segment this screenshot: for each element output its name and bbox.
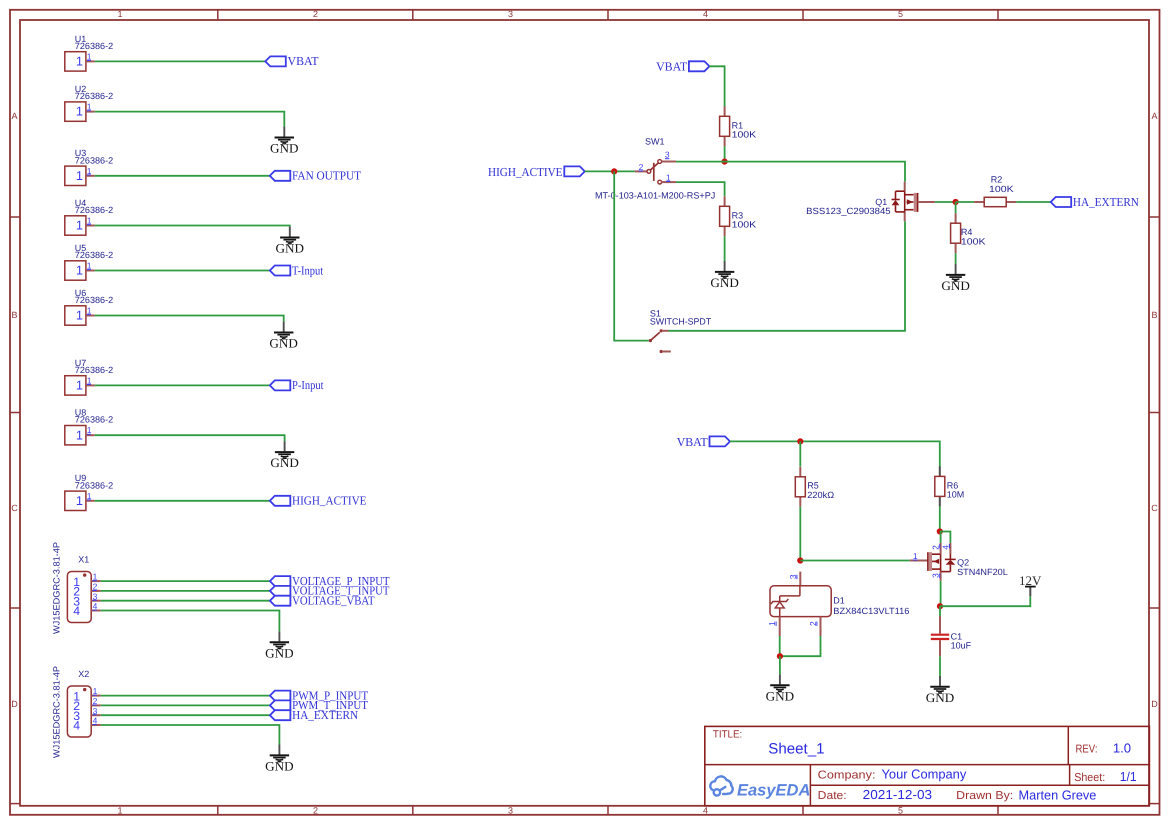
power port 12V (1019, 573, 1042, 596)
wire (940, 596, 1030, 606)
wire (939, 606, 941, 616)
svg-text:726386-2: 726386-2 (75, 250, 113, 260)
body (65, 52, 86, 71)
svg-text:100K: 100K (732, 130, 757, 140)
svg-text:1: 1 (76, 427, 83, 442)
node junction (953, 199, 959, 205)
internal wiring (799, 586, 801, 596)
net flag VOLTAGE_VBAT (270, 594, 375, 608)
svg-text:1: 1 (87, 216, 92, 226)
ground (926, 676, 955, 705)
svg-text:X2: X2 (78, 669, 89, 679)
svg-text:GND: GND (269, 337, 298, 351)
wire (676, 162, 905, 182)
gate pin 1 (910, 560, 928, 562)
svg-text:726386-2: 726386-2 (75, 155, 113, 165)
body (65, 216, 86, 235)
ruler letters left (11, 111, 18, 709)
svg-text:2: 2 (313, 806, 318, 816)
net flag VBAT (656, 60, 709, 74)
title block Company field (818, 766, 967, 781)
svg-text:100K: 100K (732, 220, 757, 230)
svg-text:1: 1 (76, 54, 83, 69)
ruler letters right (1151, 111, 1158, 709)
svg-text:1: 1 (117, 806, 122, 816)
wire (724, 236, 726, 261)
gate pin (918, 201, 935, 203)
body (67, 572, 91, 623)
node junction (937, 603, 943, 609)
channel trunk (904, 191, 906, 212)
svg-text:4: 4 (703, 806, 708, 816)
svg-text:4: 4 (703, 9, 708, 19)
wire (799, 507, 801, 561)
svg-text:Drawn By:: Drawn By: (956, 790, 1013, 802)
connector U3 726386-2 (65, 148, 113, 185)
svg-text:B: B (1151, 310, 1157, 320)
wire (95, 60, 265, 62)
svg-text:D1: D1 (833, 596, 845, 606)
svg-text:GND: GND (270, 142, 299, 156)
ground (265, 631, 294, 660)
pin throw 1 (660, 329, 663, 332)
svg-text:HIGH_ACTIVE: HIGH_ACTIVE (488, 165, 563, 179)
wire (676, 182, 725, 196)
svg-text:Your Company: Your Company (882, 766, 967, 781)
svg-text:Date:: Date: (818, 790, 847, 802)
wire (724, 146, 726, 161)
svg-text:WJ15EDGRC-3.81-4P: WJ15EDGRC-3.81-4P (52, 666, 62, 758)
wire (730, 441, 940, 467)
svg-text:C: C (11, 503, 18, 513)
svg-text:1: 1 (76, 493, 83, 508)
connector U6 726386-2 (65, 288, 113, 325)
svg-text:726386-2: 726386-2 (75, 41, 113, 51)
svg-text:100K: 100K (961, 237, 986, 247)
node junction (797, 557, 803, 563)
wire (95, 112, 284, 127)
wire (779, 636, 781, 656)
body (65, 491, 86, 510)
body diode (896, 190, 905, 192)
diode D1 BZX84C13VLT116 (767, 572, 909, 636)
zener anode triangle (775, 602, 784, 608)
svg-text:4: 4 (73, 719, 80, 733)
svg-text:HA_EXTERN: HA_EXTERN (292, 708, 358, 722)
switch S1 SWITCH-SPDT (649, 309, 712, 354)
wire (956, 201, 975, 203)
svg-text:MT-0-103-A101-M200-RS+PJ: MT-0-103-A101-M200-RS+PJ (595, 191, 715, 201)
wire (1016, 201, 1050, 203)
connector U5 726386-2 (65, 243, 113, 280)
svg-text:726386-2: 726386-2 (75, 365, 113, 375)
svg-text:1/1: 1/1 (1120, 769, 1137, 784)
svg-text:1: 1 (76, 168, 83, 183)
title block frame (705, 726, 1150, 805)
svg-text:5: 5 (898, 806, 903, 816)
svg-text:SWITCH-SPDT: SWITCH-SPDT (650, 316, 712, 326)
wire (95, 175, 270, 177)
svg-text:1: 1 (87, 166, 92, 176)
pin 3 (91, 600, 101, 602)
svg-text:EasyEDA: EasyEDA (737, 782, 810, 800)
pin common (649, 339, 652, 342)
pin 1 (86, 175, 95, 177)
wire (940, 532, 951, 543)
connector U4 726386-2 (65, 198, 113, 235)
pin 1 (86, 384, 95, 386)
pin throw 2 (660, 350, 663, 353)
connector U2 726386-2 (65, 84, 113, 121)
wire (95, 500, 270, 502)
ground (941, 264, 970, 293)
wire (799, 441, 801, 466)
svg-text:2: 2 (313, 9, 318, 19)
capacitor C1 10uF (931, 616, 972, 656)
svg-text:P-Input: P-Input (292, 378, 324, 392)
pin 1 (86, 225, 95, 227)
pin 2 (820, 617, 822, 636)
wire (95, 270, 270, 272)
node junction (611, 168, 617, 174)
net flag FAN OUTPUT (270, 169, 362, 183)
pin 1 (86, 434, 95, 436)
wire (939, 506, 941, 531)
wire (955, 202, 957, 213)
svg-text:GND: GND (766, 689, 795, 703)
resistor R4 100K (951, 213, 986, 253)
wire (101, 590, 270, 592)
svg-text:R5: R5 (807, 481, 819, 491)
title block Sheet field (1074, 769, 1137, 784)
node junction (777, 653, 783, 659)
svg-text:HA_EXTERN: HA_EXTERN (1073, 195, 1139, 209)
ground (269, 322, 298, 351)
svg-text:1: 1 (76, 378, 83, 393)
ground (270, 441, 299, 470)
lever (650, 332, 660, 340)
pin 3 (799, 572, 801, 586)
ruler ticks top (218, 10, 998, 20)
svg-text:A: A (1151, 111, 1157, 121)
channel bar (929, 552, 932, 571)
zener cathode (771, 599, 788, 604)
net flag P-Input (270, 378, 324, 392)
net flag HA_EXTERN (270, 708, 358, 722)
wire (95, 435, 285, 441)
svg-text:GND: GND (276, 242, 305, 256)
svg-text:726386-2: 726386-2 (75, 295, 113, 305)
body (65, 306, 86, 325)
wire (935, 201, 956, 203)
node junction (797, 438, 803, 444)
svg-text:2021-12-03: 2021-12-03 (863, 787, 932, 802)
svg-text:X1: X1 (78, 555, 89, 565)
wire (101, 600, 270, 602)
source pin 3 (940, 572, 942, 581)
wire (614, 171, 649, 340)
svg-text:FAN OUTPUT: FAN OUTPUT (292, 169, 361, 183)
svg-text:726386-2: 726386-2 (75, 415, 113, 425)
svg-text:1: 1 (76, 104, 83, 119)
svg-text:1: 1 (76, 308, 83, 323)
resistor R1 100K (720, 106, 757, 146)
svg-text:1: 1 (76, 218, 83, 233)
pin 1 (86, 500, 95, 502)
svg-text:12V: 12V (1019, 573, 1042, 588)
net flag HIGH_ACTIVE (270, 494, 367, 508)
switch SW1 MT-0-103-A101-M200-RS+PJ (595, 137, 715, 201)
wire (800, 560, 909, 562)
connector U7 726386-2 (65, 358, 113, 395)
drain pin (904, 182, 906, 192)
pin 4 (91, 724, 101, 726)
connector U9 726386-2 (65, 473, 113, 510)
svg-text:GND: GND (941, 279, 970, 293)
channel stubs (932, 553, 941, 555)
wire (95, 384, 270, 386)
transistor Q1 BSS123_C2903845 (806, 182, 935, 222)
body (770, 586, 831, 617)
svg-text:VOLTAGE_VBAT: VOLTAGE_VBAT (292, 594, 375, 608)
svg-text:VBAT: VBAT (656, 60, 688, 74)
node junction (937, 528, 943, 534)
transistor Q2 STN4NF20L (910, 543, 1008, 581)
svg-text:HIGH_ACTIVE: HIGH_ACTIVE (292, 494, 367, 508)
svg-text:B: B (11, 310, 17, 320)
body (65, 102, 86, 121)
drain pin 4 / body diode (949, 543, 951, 554)
svg-text:D: D (11, 699, 18, 709)
svg-text:1: 1 (117, 9, 122, 19)
svg-text:BZX84C13VLT116: BZX84C13VLT116 (833, 606, 909, 616)
net flag PWM_T_INPUT (270, 698, 368, 712)
svg-text:1: 1 (87, 425, 92, 435)
net flag VBAT (265, 54, 319, 68)
wire (780, 636, 821, 656)
svg-text:10M: 10M (947, 489, 965, 499)
svg-text:Q2: Q2 (957, 557, 969, 567)
svg-text:GND: GND (265, 759, 294, 773)
resistor R3 100K (720, 196, 757, 236)
wire (709, 66, 724, 106)
wire (101, 695, 270, 697)
svg-text:D: D (1151, 699, 1158, 709)
wire (101, 611, 280, 632)
svg-text:VBAT: VBAT (677, 435, 709, 449)
wire (585, 170, 635, 172)
pin 3 (91, 714, 101, 716)
svg-text:1: 1 (87, 306, 92, 316)
ruler ticks right (1149, 217, 1160, 804)
ruler ticks left (10, 217, 20, 804)
svg-text:1.0: 1.0 (1113, 741, 1131, 756)
svg-text:STN4NF20L: STN4NF20L (957, 567, 1008, 577)
node junction (722, 159, 728, 165)
source pin (904, 212, 906, 221)
svg-text:T-Input: T-Input (292, 263, 324, 277)
svg-text:726386-2: 726386-2 (75, 91, 113, 101)
svg-text:Marten Greve: Marten Greve (1019, 788, 1097, 803)
body (65, 426, 86, 445)
resistor R5 220kOhm (795, 467, 834, 507)
ruler numbers bottom (117, 806, 903, 816)
body (67, 686, 91, 737)
svg-text:726386-2: 726386-2 (75, 480, 113, 490)
gate bar (927, 552, 929, 571)
svg-text:3: 3 (508, 9, 513, 19)
svg-text:SW1: SW1 (645, 137, 665, 147)
pin 2 (91, 704, 101, 706)
net flag PWM_P_INPUT (270, 688, 369, 702)
pin 3 (658, 160, 662, 164)
connector X1 WJ15EDGRC-3.81-4P (52, 542, 101, 634)
wire (101, 714, 270, 716)
connector U1 726386-2 (65, 34, 113, 71)
net flag VOLTAGE_T_INPUT (270, 584, 390, 598)
ground (766, 674, 795, 703)
net flag HIGH_ACTIVE (488, 165, 585, 179)
body (65, 376, 86, 395)
ground (270, 127, 299, 156)
pin 1 (86, 270, 95, 272)
svg-text:1: 1 (87, 51, 92, 61)
svg-text:GND: GND (926, 691, 955, 705)
svg-text:3: 3 (508, 806, 513, 816)
drain pin 2 (940, 543, 942, 554)
connector U8 726386-2 (65, 408, 113, 445)
svg-text:1: 1 (87, 261, 92, 271)
svg-text:TITLE:: TITLE: (713, 729, 742, 741)
ground (710, 261, 739, 290)
resistor R2 100K (974, 175, 1016, 207)
connector X2 WJ15EDGRC-3.81-4P (52, 666, 101, 758)
title block REV field (1076, 741, 1132, 756)
ground (265, 745, 294, 774)
title block TITLE field (713, 729, 825, 758)
lever (653, 163, 655, 181)
svg-text:BSS123_C2903845: BSS123_C2903845 (806, 206, 890, 216)
channel bar (914, 193, 917, 212)
svg-text:10uF: 10uF (951, 641, 972, 651)
svg-text:1: 1 (76, 263, 83, 278)
svg-text:4: 4 (73, 604, 80, 618)
net flag T-Input (270, 263, 324, 277)
svg-text:Company:: Company: (818, 769, 876, 781)
svg-text:5: 5 (898, 9, 903, 19)
svg-text:A: A (11, 111, 17, 121)
wire (101, 580, 270, 582)
wire (669, 221, 906, 331)
svg-text:1: 1 (87, 491, 92, 501)
svg-text:Sheet_1: Sheet_1 (768, 740, 824, 757)
wire (779, 656, 781, 674)
pin 4 (91, 610, 101, 612)
wire (95, 316, 284, 322)
wire (955, 253, 957, 264)
pin 2 (635, 170, 647, 172)
gate bar (917, 193, 919, 212)
svg-text:Sheet:: Sheet: (1074, 772, 1105, 784)
svg-text:220kΩ: 220kΩ (807, 490, 834, 500)
pin 1 (91, 580, 101, 582)
svg-text:WJ15EDGRC-3.81-4P: WJ15EDGRC-3.81-4P (52, 542, 62, 634)
svg-text:GND: GND (710, 276, 739, 290)
ground (276, 227, 305, 256)
svg-text:VBAT: VBAT (288, 54, 320, 68)
ruler ticks bottom (218, 806, 998, 815)
svg-text:GND: GND (265, 646, 294, 660)
ruler numbers top (117, 9, 903, 19)
svg-text:1: 1 (87, 375, 92, 385)
net flag HA_EXTERN (1051, 195, 1139, 209)
pin 1 (86, 111, 95, 113)
svg-text:726386-2: 726386-2 (75, 205, 113, 215)
wire (940, 581, 942, 606)
pin 1 (86, 60, 95, 62)
pin 1 (658, 180, 662, 184)
svg-text:GND: GND (270, 456, 299, 470)
svg-text:C: C (1151, 503, 1158, 513)
pin 2 (91, 590, 101, 592)
svg-text:REV:: REV: (1076, 744, 1098, 756)
wire (101, 704, 270, 706)
pin 1 (779, 617, 781, 636)
svg-text:100K: 100K (989, 184, 1014, 194)
wire (101, 725, 280, 745)
body (65, 261, 86, 280)
net flag VBAT (677, 435, 730, 449)
svg-text:1: 1 (87, 102, 92, 112)
body (65, 166, 86, 185)
EasyEDA logo (710, 776, 810, 799)
trunk (940, 554, 942, 571)
pin 1 (86, 315, 95, 317)
net flag VOLTAGE_P_INPUT (270, 574, 390, 588)
title block Date field (818, 787, 1097, 803)
wire (939, 656, 941, 676)
resistor R6 10M (935, 466, 965, 506)
pin 1 (91, 695, 101, 697)
wire (95, 226, 290, 227)
